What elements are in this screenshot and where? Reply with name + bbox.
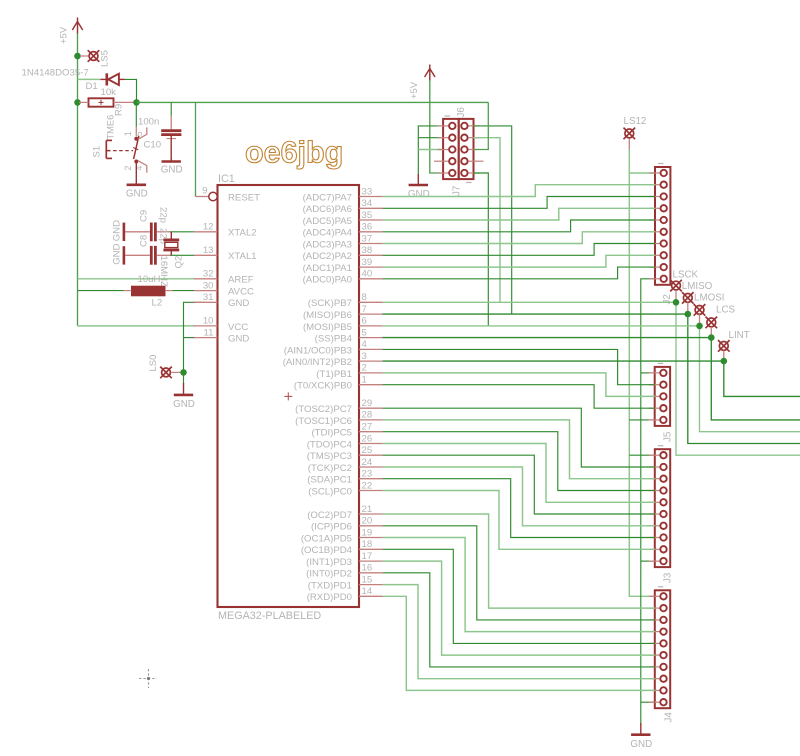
wire PA0 to J2.9: [383, 267, 656, 279]
wire LS12 rail vertical: [629, 150, 655, 597]
capacitor C10 100n: [161, 116, 181, 161]
svg-text:AREF: AREF: [228, 275, 254, 286]
svg-text:(RXD)PD0: (RXD)PD0: [307, 592, 352, 603]
svg-text:LS0: LS0: [148, 355, 159, 372]
svg-text:26: 26: [362, 433, 373, 444]
wire RESET to S1: [135, 102, 137, 126]
svg-text:11: 11: [204, 327, 214, 338]
connector J4: [649, 587, 675, 723]
wire PA7 to J2.2: [383, 185, 656, 197]
svg-text:25: 25: [362, 445, 373, 456]
IC1 right pins: [283, 186, 383, 603]
solder pad LMOSI: [694, 304, 706, 316]
wire J6.1 to MISO: [474, 126, 512, 314]
wire PA3 to J2.6: [383, 232, 656, 244]
svg-text:J5: J5: [663, 431, 674, 442]
wire AREF net: [78, 278, 195, 280]
svg-text:4: 4: [134, 166, 144, 171]
svg-text:(ADC6)PA6: (ADC6)PA6: [303, 204, 352, 215]
ground under C10: [161, 158, 183, 175]
wire SCK net: [383, 301, 677, 303]
wire GND to J3.10: [641, 560, 655, 562]
wire CS net: [383, 337, 712, 339]
svg-text:L2: L2: [152, 298, 163, 309]
pin stub LS0: [172, 371, 181, 373]
svg-text:5: 5: [134, 131, 144, 136]
svg-text:LS5: LS5: [100, 50, 111, 67]
solder pad LS0: [160, 367, 172, 379]
wire MISO net: [383, 313, 688, 315]
wire GND to J5.1: [641, 372, 655, 374]
svg-text:(AIN1/OC0)PB3: (AIN1/OC0)PB3: [284, 345, 352, 356]
svg-text:(TMS)PC3: (TMS)PC3: [307, 451, 352, 462]
wire MISO to right edge: [688, 314, 800, 443]
wire XTAL1 net: [170, 254, 194, 256]
svg-text:LS12: LS12: [624, 116, 647, 127]
wire PD0 to J4.9: [383, 596, 655, 690]
ground at bottom right: [630, 723, 652, 750]
svg-text:GND: GND: [112, 220, 123, 241]
wire PD5 to J4.4: [383, 538, 655, 632]
svg-text:19: 19: [362, 527, 373, 538]
svg-text:14: 14: [362, 586, 373, 597]
wire PC2 to J3.7: [383, 467, 655, 526]
svg-text:(ADC2)PA2: (ADC2)PA2: [303, 251, 352, 262]
switch S1: [106, 127, 147, 173]
ground bar for C9 (rotated GND): [123, 223, 126, 241]
svg-text:(ADC4)PA4: (ADC4)PA4: [303, 228, 353, 239]
svg-text:13: 13: [203, 245, 214, 256]
svg-text:1: 1: [362, 375, 367, 386]
svg-text:(SS)PB4: (SS)PB4: [315, 334, 353, 345]
svg-text:LMISO: LMISO: [682, 281, 713, 292]
svg-text:33: 33: [362, 186, 373, 197]
svg-text:GND: GND: [161, 164, 183, 175]
+5V supply symbol (left): [72, 18, 82, 35]
svg-text:J3: J3: [662, 572, 673, 583]
svg-text:1N4148DO35-7: 1N4148DO35-7: [22, 68, 89, 79]
ground under LS0: [173, 383, 195, 410]
svg-text:10uH: 10uH: [138, 274, 161, 285]
wire AVCC branch to L2: [78, 290, 124, 292]
junction at R9/D1 tap: [74, 99, 81, 106]
solder pad LS12: [624, 128, 636, 140]
svg-text:(ICP)PD6: (ICP)PD6: [311, 522, 352, 533]
svg-text:+5V: +5V: [409, 81, 420, 99]
wire +5V rail vertical: [77, 33, 79, 326]
svg-text:(TDI)PC5: (TDI)PC5: [311, 428, 352, 439]
wire PB3 to J5.2: [383, 349, 655, 384]
svg-text:XTAL2: XTAL2: [228, 228, 257, 239]
svg-text:27: 27: [362, 422, 373, 433]
svg-text:Q2: Q2: [174, 256, 185, 269]
NC pin stubs ISP row4: [434, 160, 438, 162]
svg-text:MEGA32-PLABELED: MEGA32-PLABELED: [218, 610, 321, 622]
svg-text:1: 1: [123, 131, 133, 136]
solder pad LSCK: [670, 280, 682, 292]
wire D1 anode to +5V rail: [78, 78, 101, 80]
svg-text:(AIN0/INT2)PB2: (AIN0/INT2)PB2: [283, 357, 352, 368]
ground under ISP header: [408, 174, 430, 200]
wire VCC net elbow: [78, 325, 196, 327]
wire LS12 to J2.1: [629, 172, 655, 174]
solder pad LCS: [706, 317, 718, 329]
svg-text:(OC1B)PD4: (OC1B)PD4: [301, 545, 353, 556]
junction LSCK: [673, 299, 680, 306]
wire PA1 to J2.8: [383, 255, 656, 267]
IC1 origin cross: [284, 392, 292, 400]
svg-text:TME6: TME6: [106, 115, 116, 140]
svg-text:(SCL)PC0: (SCL)PC0: [308, 486, 352, 497]
svg-text:(T1)PB1: (T1)PB1: [316, 369, 352, 380]
svg-text:7: 7: [362, 304, 367, 315]
wire PC0 to J3.9: [383, 491, 655, 550]
wire MOSI net: [383, 325, 700, 327]
svg-text:2: 2: [362, 363, 367, 374]
sheet origin marker: [139, 669, 157, 688]
wire INT net: [383, 360, 724, 362]
wire S1 pin2 to ground: [135, 162, 137, 185]
junction LCS: [708, 334, 715, 341]
svg-text:GND: GND: [408, 189, 430, 200]
svg-text:(ADC1)PA1: (ADC1)PA1: [303, 263, 352, 274]
svg-text:S1: S1: [92, 146, 103, 158]
wire GND to J4.10: [641, 701, 655, 703]
svg-text:22: 22: [362, 480, 373, 491]
svg-text:(TCK)PC2: (TCK)PC2: [308, 463, 352, 474]
svg-text:J7: J7: [451, 186, 462, 196]
svg-text:30: 30: [203, 280, 214, 291]
svg-text:(SCK)PB7: (SCK)PB7: [308, 298, 352, 309]
wire RESET to J6.3: [474, 102, 489, 149]
wire MOSI to right edge: [700, 326, 800, 432]
wire PA6 to J2.3: [383, 197, 656, 209]
wire GND rail vertical: [641, 279, 655, 724]
wire PC1 to J3.8: [383, 479, 655, 538]
wire PC3 to J3.6: [383, 455, 655, 514]
svg-text:100n: 100n: [138, 116, 159, 127]
svg-text:9: 9: [202, 186, 207, 197]
svg-text:LCS: LCS: [716, 304, 736, 315]
wire LS12 to J3.1: [629, 454, 655, 456]
svg-text:(TXD)PD1: (TXD)PD1: [308, 581, 352, 592]
svg-text:35: 35: [362, 210, 373, 221]
wire RESET net to IC pin 9: [195, 102, 197, 196]
svg-text:5: 5: [362, 327, 367, 338]
solder pad LS5: [88, 50, 100, 62]
ground under S1: [126, 183, 148, 199]
wire PC6 to J3.3: [383, 420, 655, 479]
svg-text:(OC2)PD7: (OC2)PD7: [307, 510, 352, 521]
pin stub LS12: [628, 139, 630, 150]
svg-text:+5V: +5V: [59, 26, 70, 44]
wire PD4 to J4.5: [383, 549, 655, 643]
wire PD6 to J4.3: [383, 526, 655, 620]
svg-text:D1: D1: [86, 81, 98, 92]
svg-text:GND: GND: [173, 399, 195, 410]
wire CS to right edge: [711, 338, 800, 420]
svg-text:2: 2: [123, 166, 133, 171]
svg-text:C8: C8: [139, 235, 150, 247]
svg-text:23: 23: [362, 469, 373, 480]
wire PA4 to J2.5: [383, 220, 656, 232]
svg-text:31: 31: [203, 292, 214, 303]
wire PD1 to J4.8: [383, 585, 655, 679]
svg-text:(INT1)PD3: (INT1)PD3: [306, 557, 352, 568]
svg-text:(ADC7)PA7: (ADC7)PA7: [303, 192, 352, 203]
wire SCK to right edge: [676, 302, 800, 455]
svg-text:40: 40: [362, 269, 373, 280]
wire PB0 to J5.4: [383, 385, 655, 409]
wire +5V to J7 pin5: [430, 80, 443, 173]
wire GND bus J7 pins 1-3: [418, 126, 443, 175]
pin stubs R9: [79, 101, 89, 103]
svg-text:24: 24: [362, 457, 373, 468]
wire INT to right edge: [724, 361, 800, 396]
wire PA2 to J2.7: [383, 244, 656, 256]
svg-text:(ADC5)PA5: (ADC5)PA5: [303, 216, 352, 227]
svg-text:12: 12: [203, 222, 214, 233]
capacitor C9 22p: [125, 223, 170, 242]
svg-text:38: 38: [362, 245, 373, 256]
svg-text:GND: GND: [112, 243, 123, 264]
connector J2: [649, 164, 673, 305]
svg-text:XTAL1: XTAL1: [228, 251, 257, 262]
wire PD3 to J4.6: [383, 561, 655, 655]
+5V supply symbol (ISP): [425, 65, 435, 82]
svg-text:17: 17: [362, 551, 373, 562]
svg-text:(SDA)PC1: (SDA)PC1: [307, 475, 352, 486]
svg-text:AVCC: AVCC: [228, 287, 254, 298]
svg-text:3: 3: [362, 351, 367, 362]
svg-text:34: 34: [362, 198, 373, 209]
svg-text:16: 16: [362, 563, 373, 574]
svg-text:GND: GND: [228, 334, 249, 345]
inductor L2 10uH: [132, 286, 166, 296]
wire PA5 to J2.4: [383, 208, 656, 220]
svg-text:GND: GND: [126, 188, 148, 199]
svg-text:(MISO)PB6: (MISO)PB6: [303, 310, 352, 321]
wire PC4 to J3.5: [383, 444, 655, 503]
svg-text:39: 39: [362, 257, 373, 268]
svg-text:10: 10: [203, 316, 214, 327]
svg-text:21: 21: [362, 504, 373, 515]
wire RESET net horizontal: [137, 101, 489, 103]
junction LMISO: [685, 311, 692, 318]
svg-text:(ADC3)PA3: (ADC3)PA3: [303, 239, 352, 250]
svg-text:oe6jbg: oe6jbg: [245, 136, 343, 170]
wire PD2 to J4.7: [383, 573, 655, 667]
junction at LS5 tap: [74, 53, 81, 60]
resistor R9 10k: [89, 98, 114, 106]
svg-text:GND: GND: [630, 739, 652, 750]
svg-text:J6: J6: [456, 107, 467, 118]
junction RESET node: [133, 99, 140, 106]
svg-text:28: 28: [362, 410, 373, 421]
diode D1: [101, 73, 125, 85]
svg-text:(TOSC1)PC6: (TOSC1)PC6: [295, 416, 352, 427]
IC1 left pins: [194, 186, 260, 345]
solder pad LINT: [718, 340, 730, 352]
svg-text:(ADC0)PA0: (ADC0)PA0: [303, 275, 352, 286]
svg-text:C10: C10: [144, 140, 162, 151]
connector J3: [649, 446, 674, 583]
wire PD7 to J4.2: [383, 514, 655, 608]
svg-text:C9: C9: [139, 210, 150, 222]
svg-text:15: 15: [362, 574, 373, 585]
connector J7 (ISP left column): [438, 116, 463, 196]
svg-text:LMOSI: LMOSI: [694, 293, 725, 304]
svg-text:(T0/XCK)PB0: (T0/XCK)PB0: [294, 381, 352, 392]
svg-text:(TDO)PC4: (TDO)PC4: [307, 439, 353, 450]
wire J6.5 to MOSI: [474, 173, 489, 326]
pin stub LS5: [80, 55, 89, 57]
capacitor C8 22p: [125, 246, 170, 265]
svg-text:LSCK: LSCK: [673, 270, 699, 281]
svg-text:LINT: LINT: [729, 330, 750, 341]
svg-text:IC1: IC1: [218, 173, 235, 185]
svg-text:6: 6: [362, 316, 367, 327]
wire XTAL2 net: [170, 231, 194, 233]
svg-text:10k: 10k: [101, 87, 117, 98]
svg-text:20: 20: [362, 516, 373, 527]
svg-text:36: 36: [362, 222, 373, 233]
svg-text:18: 18: [362, 539, 373, 550]
wire LS12 to J5.5: [629, 419, 654, 421]
solder pad LMISO: [682, 292, 694, 304]
wire L2 to AVCC pin: [173, 290, 195, 292]
wire RESET net to C10: [170, 102, 172, 115]
svg-text:(OC1A)PD5: (OC1A)PD5: [301, 533, 352, 544]
svg-text:RESET: RESET: [228, 192, 260, 203]
svg-text:8: 8: [362, 292, 367, 303]
connector J5: [649, 363, 674, 442]
svg-text:22p: 22p: [157, 207, 168, 223]
ground bar for C8 (rotated GND): [123, 246, 126, 264]
svg-text:37: 37: [362, 233, 373, 244]
wire J6.2 to SCK: [474, 138, 501, 303]
wire PB1 to J5.3: [383, 373, 655, 397]
wire PC5 to J3.4: [383, 432, 655, 491]
junction LS0 tap: [180, 369, 187, 376]
svg-text:(MOSI)PB5: (MOSI)PB5: [303, 322, 352, 333]
junction LINT: [721, 358, 728, 365]
wire PC7 to J3.2: [383, 408, 655, 467]
connector J6 (ISP right column): [456, 107, 480, 183]
wire GND net of pins 31 and 11: [184, 302, 205, 384]
svg-text:(TOSC2)PC7: (TOSC2)PC7: [295, 404, 352, 415]
IC U1 / IC1 MEGA32-PLABELED body: [218, 185, 360, 607]
svg-text:VCC: VCC: [228, 322, 248, 333]
svg-text:R9: R9: [114, 104, 125, 116]
svg-text:4: 4: [362, 339, 368, 350]
crystal Q2: [163, 232, 179, 256]
wire D1 cathode to RESET node: [125, 79, 137, 102]
junction LMOSI: [696, 323, 703, 330]
svg-text:29: 29: [362, 398, 373, 409]
svg-text:GND: GND: [228, 298, 249, 309]
svg-text:(INT0)PD2: (INT0)PD2: [306, 569, 352, 580]
svg-text:32: 32: [203, 269, 214, 280]
svg-text:J4: J4: [663, 712, 674, 723]
